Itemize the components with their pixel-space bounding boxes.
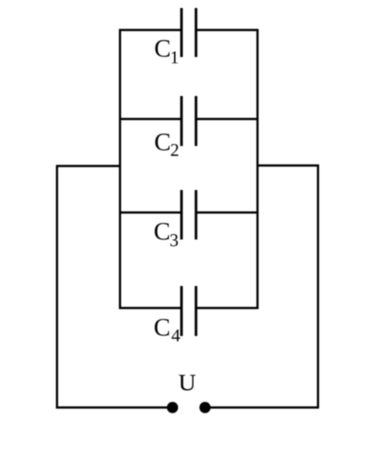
wire: left outer horizontal [56,165,120,167]
wire: C2 branch right segment [196,118,259,120]
capacitor C1 [182,8,197,57]
wire: right outer vertical [317,165,319,409]
wire: inner right rail [256,29,258,309]
wire: C3 branch left segment [119,211,182,213]
wire: C4 branch right segment [196,307,259,309]
label C4 [155,319,180,341]
wire: left outer vertical [56,165,58,409]
terminal dot left [167,402,178,413]
wire: C3 branch right segment [196,211,259,213]
capacitor C4 [182,286,197,336]
wire: bottom left segment [56,406,173,408]
terminal dot right [199,402,210,413]
label C2 [155,134,178,156]
label U [179,375,196,391]
wire: C2 branch left segment [119,118,182,120]
wire: inner left rail [119,29,121,309]
wire: right outer horizontal [258,164,320,166]
wire: C1 branch right segment [196,29,259,31]
wire: C1 branch left segment [119,29,182,31]
wire: bottom right segment [205,406,319,408]
label C3 [155,223,178,246]
capacitor C3 [182,190,197,240]
wire: C4 branch left segment [119,307,182,309]
capacitor C2 [182,96,197,146]
label C1 [155,40,178,63]
